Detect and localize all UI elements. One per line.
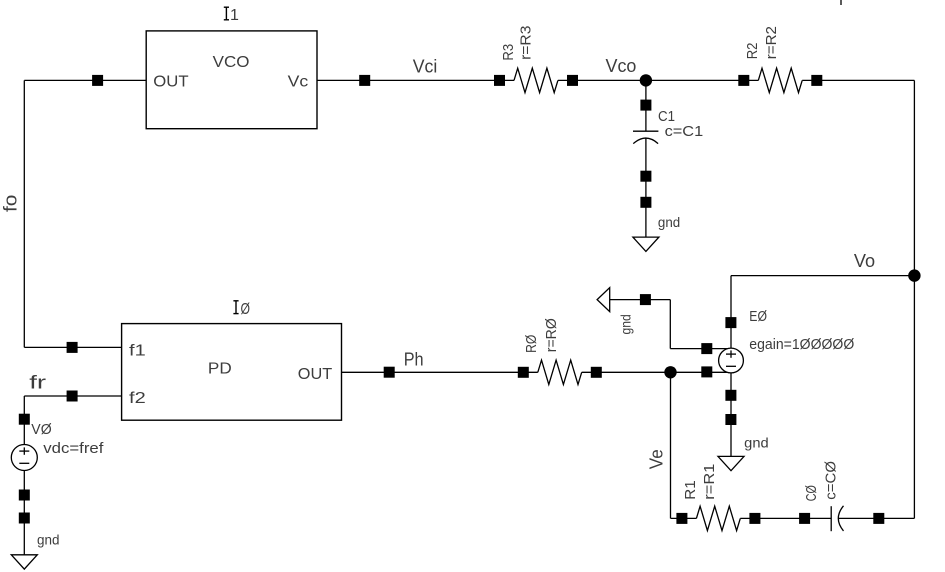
svg-text:r=R1: r=R1	[701, 464, 718, 500]
svg-text:egain=1ØØØØØ: egain=1ØØØØØ	[749, 336, 854, 353]
svg-text:VCO: VCO	[213, 54, 250, 71]
svg-text:r=R3: r=R3	[517, 26, 534, 60]
svg-text:Vco: Vco	[606, 56, 637, 76]
svg-text:OUT: OUT	[153, 74, 189, 91]
svg-text:c=CØ: c=CØ	[822, 461, 839, 500]
svg-text:CØ: CØ	[803, 485, 820, 501]
svg-text:R3: R3	[500, 44, 517, 61]
svg-text:VØ: VØ	[31, 421, 52, 438]
svg-text:r=RØ: r=RØ	[543, 318, 560, 352]
svg-text:RØ: RØ	[523, 334, 540, 352]
svg-text:gnd: gnd	[744, 435, 769, 451]
svg-text:PD: PD	[208, 360, 232, 377]
svg-text:Ø: Ø	[241, 301, 251, 318]
svg-text:Ve: Ve	[646, 449, 666, 469]
svg-text:R1: R1	[682, 480, 699, 499]
svg-text:fr: fr	[29, 373, 46, 393]
svg-text:vdc=fref: vdc=fref	[43, 440, 104, 457]
svg-text:f2: f2	[129, 390, 146, 407]
svg-text:c=C1: c=C1	[665, 123, 704, 140]
svg-text:EØ: EØ	[749, 308, 767, 325]
svg-text:1: 1	[230, 7, 239, 24]
svg-text:Ph: Ph	[404, 349, 424, 369]
svg-text:gnd: gnd	[658, 214, 680, 230]
svg-text:OUT: OUT	[298, 366, 333, 383]
svg-text:gnd: gnd	[617, 314, 633, 334]
svg-text:f1: f1	[129, 342, 146, 359]
svg-text:gnd: gnd	[37, 531, 60, 547]
svg-text:fo: fo	[0, 195, 20, 212]
svg-text:R2: R2	[744, 43, 761, 60]
svg-text:Vci: Vci	[413, 56, 438, 76]
svg-text:Vc: Vc	[288, 74, 309, 91]
svg-text:Vo: Vo	[854, 251, 875, 271]
svg-text:r=R2: r=R2	[763, 26, 780, 59]
